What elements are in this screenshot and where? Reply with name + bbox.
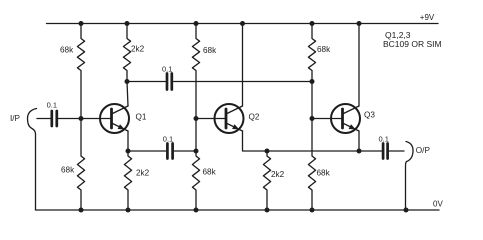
svg-text:0.1: 0.1 <box>162 64 172 73</box>
input jack J1 I/P <box>28 109 37 211</box>
wire C3 cap to node B2 <box>174 150 196 152</box>
node dot bottom rail x267 <box>265 208 270 213</box>
svg-text:68k: 68k <box>60 46 74 55</box>
node dot top rail x196 <box>194 21 199 26</box>
svg-text:2k2: 2k2 <box>271 170 285 179</box>
svg-text:0.1: 0.1 <box>163 134 173 143</box>
resistor R3 2k2 (collector load, Q1) <box>123 24 130 82</box>
node dot bottom rail x128 <box>126 208 131 213</box>
svg-text:0V: 0V <box>433 200 443 209</box>
wire +9V top rail <box>47 23 439 25</box>
capacitor C2 0.1 (Q1 collector to Q3 base) <box>167 74 172 90</box>
node dot top rail x312 <box>310 21 315 26</box>
node dot top rail x242 <box>240 21 245 26</box>
wire base lead Q3 <box>312 118 343 120</box>
svg-text:2k2: 2k2 <box>136 169 150 178</box>
svg-text:68k: 68k <box>203 168 217 177</box>
svg-text:I/P: I/P <box>10 114 21 123</box>
node dot B3 upper tap <box>310 79 315 84</box>
resistor R1 68k (upper bias, Q1) <box>77 24 84 119</box>
capacitor C4 0.1 (output coupling) <box>383 144 388 159</box>
node dot bottom rail x81 <box>79 208 84 213</box>
transistor Q2 <box>215 104 244 133</box>
resistor R9 68k (lower bias, Q3) <box>308 82 315 211</box>
node dot bottom rail x312 <box>310 208 315 213</box>
node dot shared emitter / R7 <box>265 149 270 154</box>
wire base lead Q2 <box>196 118 226 120</box>
node dot top rail x81 <box>79 21 84 26</box>
resistor R7 2k2 (shared emitter load, Q2/Q3) <box>263 151 270 210</box>
svg-text:Q1: Q1 <box>136 113 147 122</box>
svg-text:68k: 68k <box>317 169 331 178</box>
node dot B1 (Q1 base) <box>79 116 84 121</box>
svg-text:Q3: Q3 <box>364 111 375 120</box>
capacitor C3 0.1 (Q1 emitter to Q2 base) <box>167 144 172 159</box>
svg-text:O/P: O/P <box>416 146 431 155</box>
svg-text:68k: 68k <box>317 45 331 54</box>
node dot B3 (Q3 base) <box>310 116 315 121</box>
svg-text:BC109 OR SIM: BC109 OR SIM <box>383 39 442 49</box>
capacitor C1 0.1 (input coupling) <box>52 111 57 126</box>
transistor Q1 <box>100 104 129 133</box>
wire C2 cap to node B3 <box>173 81 312 83</box>
svg-text:2k2: 2k2 <box>131 45 145 54</box>
svg-text:0.1: 0.1 <box>47 101 57 110</box>
svg-text:Q2: Q2 <box>249 113 260 122</box>
resistor R8 68k (upper bias, Q3) <box>308 24 315 82</box>
wire C1 to node B1 <box>58 118 81 120</box>
wire E1 node to C3 cap <box>128 150 166 152</box>
node dot B2 (Q2 base) <box>194 116 199 121</box>
svg-text:68k: 68k <box>203 46 217 55</box>
node dot top rail x359 <box>357 21 362 26</box>
node dot bottom rail x196 <box>194 208 199 213</box>
transistor Q3 <box>331 104 360 133</box>
svg-text:+9V: +9V <box>420 13 435 22</box>
wire C4 cap to O/P jack <box>389 150 404 152</box>
resistor R4 2k2 (emitter load, Q1) <box>124 151 131 210</box>
wire Q1 collector up <box>127 82 128 107</box>
resistor R6 68k (lower bias, Q2) <box>192 151 199 210</box>
node dot bottom rail x406 <box>404 208 409 213</box>
wire 0V bottom rail <box>36 209 440 211</box>
wire Q2 collector to +9V rail <box>242 24 244 107</box>
node dot E1 (Q1 emitter) <box>126 149 131 154</box>
node dot E3 (Q3 emitter) <box>357 149 362 154</box>
svg-text:68k: 68k <box>61 166 75 175</box>
node dot C1 (Q1 collector) <box>125 79 130 84</box>
node dot top rail x127 <box>125 21 130 26</box>
svg-text:0.1: 0.1 <box>379 134 389 143</box>
wire E3 node to C4 cap <box>359 150 382 152</box>
node dot B2 cap tap <box>194 149 199 154</box>
resistor R5 68k (upper bias, Q2) <box>192 24 199 152</box>
wire I/P jack to C1 <box>37 118 50 120</box>
wire Q3 collector to +9V rail <box>358 24 360 107</box>
resistor R2 68k (lower bias, Q1) <box>77 119 84 211</box>
output jack J2 O/P <box>406 142 414 211</box>
wire Q2 emitter down and right (shared emitter line) <box>243 131 360 151</box>
wire node C1 to C2 cap <box>127 81 165 83</box>
wire Q1 emitter down <box>127 131 129 151</box>
wire base lead Q1 <box>81 118 112 120</box>
wire Q3 emitter down <box>358 131 360 151</box>
